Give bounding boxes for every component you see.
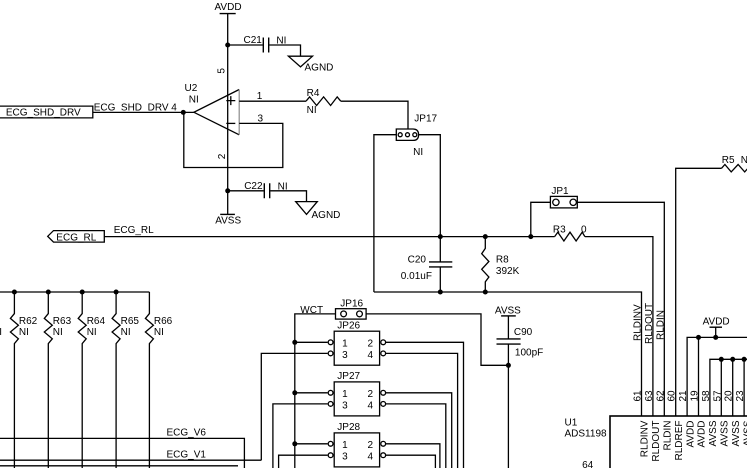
wire AVDD rail to pins 21/19 (687, 337, 747, 416)
resistor R64 (78, 292, 105, 468)
wire JP16 pin1 to WCT vertical (295, 314, 336, 468)
svg-text:19: 19 (690, 390, 701, 402)
svg-text:3: 3 (342, 400, 348, 411)
svg-text:64: 64 (582, 460, 594, 468)
wire WCT to JP27 pin1 (295, 392, 328, 394)
svg-text:4: 4 (368, 452, 374, 463)
svg-text:AGND: AGND (312, 210, 341, 221)
svg-text:AVDD: AVDD (697, 421, 708, 448)
wire JP28 pin2 right down (386, 444, 440, 468)
power AVDD (top) (215, 2, 242, 13)
wire AVSS rail to pin 58 (710, 359, 747, 416)
power AVSS (below op-amp) (215, 214, 241, 226)
svg-text:RLDOUT: RLDOUT (644, 303, 655, 344)
wire ECG_V1 riser to JP26 pin3 (261, 353, 327, 460)
svg-text:ECG_SHD_DRV: ECG_SHD_DRV (6, 108, 81, 119)
off-page connector arrow ECG_RL (48, 231, 105, 244)
capacitor C20 (401, 254, 453, 282)
wire JP27 pin3 down off-sheet (273, 404, 328, 468)
svg-text:NI: NI (307, 105, 317, 116)
svg-text:R62: R62 (19, 316, 38, 327)
resistor R3 (553, 224, 587, 241)
svg-text:0.01uF: 0.01uF (401, 271, 432, 282)
svg-text:4: 4 (368, 350, 374, 361)
svg-text:NI: NI (87, 327, 97, 338)
svg-text:0: 0 (581, 224, 587, 235)
resistor R5 (722, 155, 747, 172)
wire bottom edge net (clipped) (0, 465, 238, 467)
wire input to op-amp (93, 111, 194, 113)
node: junction at C22 tap (225, 188, 230, 193)
wire C21 left (228, 44, 263, 46)
ground AGND (lower) (296, 202, 341, 221)
op-amp U1 reference labels U2 / NI (185, 83, 199, 106)
wire feedback loop pin3 to input node (184, 112, 283, 167)
svg-text:NI: NI (53, 327, 63, 338)
resistor R8 (482, 237, 520, 292)
wire JP28 pin4 right down (386, 455, 436, 468)
svg-text:R3: R3 (553, 224, 566, 235)
wire RLDREF to R5 (676, 168, 722, 416)
wire C21 to AGND (269, 45, 300, 56)
node: junction R64 (80, 290, 85, 295)
svg-text:NI: NI (0, 327, 2, 338)
svg-text:JP27: JP27 (337, 371, 360, 382)
svg-text:61: 61 (633, 390, 644, 402)
svg-text:21: 21 (678, 390, 689, 402)
svg-text:2: 2 (368, 389, 374, 400)
svg-text:NI: NI (154, 327, 164, 338)
wire R3 to RLDOUT (585, 237, 653, 416)
wire JP27 pin4 right down (386, 404, 446, 468)
svg-text:C22: C22 (244, 181, 263, 192)
resistor R66 (145, 292, 172, 468)
wire op-amp output to R4 (239, 100, 306, 102)
svg-text:R64: R64 (87, 316, 106, 327)
node: junction WCT to JP27 pin1 (292, 390, 297, 395)
node: junction R62 (12, 290, 17, 295)
svg-text:R8: R8 (496, 255, 509, 266)
wire AVDD drop (715, 327, 717, 337)
svg-text:AVDD: AVDD (215, 2, 242, 13)
off-page connector box ECG_SHD_DRV (0, 106, 93, 119)
svg-text:4: 4 (368, 400, 374, 411)
svg-text:R63: R63 (53, 316, 72, 327)
node: junction R63 (46, 290, 51, 295)
wire JP28 pin3 down off-sheet (279, 455, 328, 468)
svg-text:U2: U2 (185, 83, 198, 94)
svg-text:R5: R5 (722, 155, 735, 166)
svg-text:RLDINV: RLDINV (633, 304, 644, 341)
svg-text:AVDD: AVDD (703, 317, 730, 328)
svg-text:2: 2 (368, 339, 374, 350)
svg-text:ECG_RL: ECG_RL (56, 232, 96, 243)
svg-text:100pF: 100pF (515, 347, 543, 358)
resistor R63 (44, 292, 71, 468)
wire left electrode rail (0, 291, 149, 293)
wire C20 to rail (439, 267, 441, 292)
svg-text:AVSS: AVSS (742, 420, 747, 446)
wire RLD bottom rail (374, 292, 642, 416)
svg-text:2: 2 (368, 440, 374, 451)
wire ECG_V6 (0, 438, 244, 468)
capacitor C90 (497, 327, 544, 359)
connector JP27 (328, 371, 385, 416)
svg-text:1: 1 (257, 91, 263, 102)
svg-text:JP26: JP26 (337, 320, 360, 331)
svg-text:60: 60 (667, 390, 678, 402)
wire C20 top stub (439, 257, 441, 262)
svg-text:63: 63 (644, 390, 655, 402)
svg-text:R66: R66 (154, 316, 173, 327)
connector JP28 (328, 422, 385, 467)
node: input junction (181, 110, 186, 115)
wire JP17 pin3 down through ECG_RL to C20 (419, 135, 441, 257)
svg-text:AGND: AGND (305, 62, 334, 73)
svg-text:NI: NI (19, 327, 29, 338)
wire C90 down to bottom edge (507, 344, 509, 468)
wire pin23 stub (743, 359, 745, 416)
node: junction JP17/C20 on ECG_RL (438, 234, 443, 239)
svg-text:AVSS: AVSS (215, 215, 241, 226)
svg-text:NI: NI (121, 327, 131, 338)
resistor R62 (10, 292, 37, 468)
wire JP1 pin2 to RLDIN (577, 202, 664, 416)
node: junction AVDD pin19 (696, 335, 701, 340)
svg-text:1: 1 (342, 440, 348, 451)
wire WCT to JP28 pin1 (295, 443, 328, 445)
svg-text:RLDREF: RLDREF (674, 421, 685, 461)
wire JP27 pin2 right down (386, 393, 452, 468)
svg-text:1: 1 (342, 389, 348, 400)
svg-text:NI: NI (189, 94, 199, 105)
resistor R4 (306, 88, 341, 116)
wire JP16 pin2 to C90 node (366, 314, 508, 365)
connector JP1 (550, 186, 577, 208)
svg-text:JP28: JP28 (337, 422, 360, 433)
wire ECG_V1 (0, 459, 261, 461)
svg-text:5: 5 (217, 68, 228, 74)
wire AVDD to AVSS vertical through op-amp (pins 5/2) (227, 14, 229, 215)
IC U1 ADS1198 body (565, 416, 747, 468)
node: junction at C21 tap (225, 43, 230, 48)
wire WCT to JP26 pin1 (295, 341, 328, 343)
connector JP17 (396, 113, 437, 158)
svg-text:ECG_V1: ECG_V1 (167, 450, 207, 461)
svg-text:392K: 392K (496, 266, 520, 277)
svg-text:C20: C20 (408, 254, 427, 265)
node: junction WCT to JP26 pin1 (292, 340, 297, 345)
capacitor C21 (244, 35, 287, 52)
wire AVSS to C90 (507, 316, 509, 339)
node: junction R8 top (483, 234, 488, 239)
svg-text:JP1: JP1 (551, 186, 569, 197)
svg-text:RLDIN: RLDIN (663, 421, 674, 451)
svg-text:1: 1 (342, 339, 348, 350)
svg-text:C90: C90 (514, 327, 533, 338)
op-amp U2 triangle (194, 90, 239, 135)
svg-text:AVSS: AVSS (495, 306, 521, 317)
svg-text:R4: R4 (307, 88, 320, 99)
ground AGND (top) (288, 56, 333, 73)
wire R4 to JP17 (341, 101, 408, 129)
svg-text:57: 57 (712, 390, 723, 402)
svg-text:RLDOUT: RLDOUT (651, 421, 662, 462)
svg-text:ECG_RL: ECG_RL (114, 225, 154, 236)
wire JP17 pin1 to RLD rail (374, 135, 396, 292)
node: junction JP1 tap on ECG_RL (528, 234, 533, 239)
wire pin20 stub (732, 359, 734, 416)
svg-text:RLDIN: RLDIN (656, 310, 667, 340)
svg-text:AVDD: AVDD (685, 421, 696, 448)
svg-text:23: 23 (735, 390, 746, 402)
svg-text:C21: C21 (244, 35, 263, 46)
svg-text:AVSS: AVSS (731, 420, 742, 446)
svg-text:NI: NI (413, 147, 423, 158)
wire ECG_RL main horizontal net (104, 236, 554, 238)
svg-text:62: 62 (655, 390, 666, 402)
node: junction C90/WCT drive (506, 363, 511, 368)
wire JP26 pin2 right down (386, 342, 464, 468)
resistor R65 (112, 292, 139, 468)
node: junction R65 (114, 290, 119, 295)
svg-text:2: 2 (217, 153, 228, 159)
node: junction C20 rail (438, 290, 443, 295)
wire C22 to AGND (270, 191, 306, 202)
svg-text:RLDINV: RLDINV (640, 420, 651, 457)
svg-text:20: 20 (724, 390, 735, 402)
power AVSS (C90) (495, 306, 521, 317)
capacitor C22 (244, 181, 287, 198)
connector JP16 (336, 298, 367, 319)
node: junction AVSS pin23 (742, 357, 747, 362)
connector JP26 (328, 320, 385, 365)
svg-text:3: 3 (342, 350, 348, 361)
svg-text:AVSS: AVSS (720, 420, 731, 446)
svg-text:3: 3 (342, 452, 348, 463)
svg-text:ECG_V6: ECG_V6 (167, 428, 207, 439)
node: junction R8 bottom rail (483, 290, 488, 295)
node: junction AVSS pin20 (730, 357, 735, 362)
node: junction WCT to JP28 pin1 (292, 441, 297, 446)
wire JP1 pin1 down (531, 202, 551, 236)
svg-text:58: 58 (701, 390, 712, 402)
wire C22 left (228, 190, 264, 192)
svg-text:JP16: JP16 (340, 298, 363, 309)
svg-text:AVSS: AVSS (708, 420, 719, 446)
svg-text:R65: R65 (121, 316, 140, 327)
svg-text:U1: U1 (565, 418, 578, 429)
wire JP26 pin4 right down (386, 353, 458, 468)
node: junction AVSS pin57 (719, 357, 724, 362)
node: junction AVDD symbol tap (713, 335, 718, 340)
svg-text:ADS1198: ADS1198 (565, 429, 608, 440)
power AVDD (right) (703, 317, 730, 328)
svg-text:JP17: JP17 (414, 113, 437, 124)
wire pin19 stub (698, 337, 700, 416)
wire pin57 stub (720, 359, 722, 416)
svg-text:NI: NI (741, 155, 747, 166)
